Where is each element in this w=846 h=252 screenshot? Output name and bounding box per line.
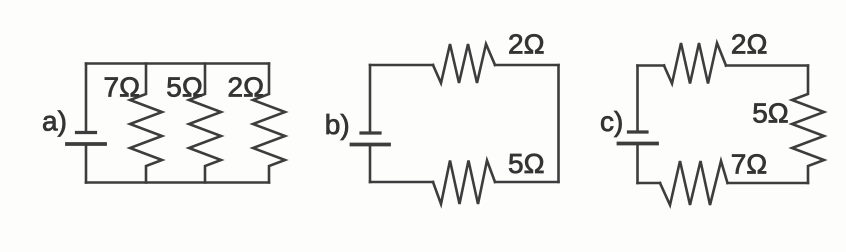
resistor R6 2ohm (horizontal, top) <box>664 43 726 84</box>
svg-text:7Ω: 7Ω <box>104 71 141 102</box>
resistor R4 2ohm (horizontal, top) <box>433 44 495 83</box>
wire: left edge lower of circuit c (battery lead) <box>636 146 639 184</box>
wire: top-left wire of circuit c <box>638 64 665 67</box>
battery V3 short plate (negative) <box>629 130 648 133</box>
wire: left edge upper of circuit c (battery lead) <box>636 66 639 131</box>
svg-text:a): a) <box>42 106 67 137</box>
svg-text:5Ω: 5Ω <box>752 97 789 128</box>
wire: bottom-right wire of circuit c <box>728 182 809 185</box>
wire: left edge lower (battery lead) <box>85 146 88 183</box>
svg-text:5Ω: 5Ω <box>508 148 545 179</box>
resistor R5 5ohm (horizontal, bottom) <box>433 161 495 205</box>
wire: bottom-left wire of circuit b <box>370 181 433 184</box>
svg-text:2Ω: 2Ω <box>508 29 545 60</box>
svg-text:c): c) <box>600 106 623 137</box>
battery V2 short plate (negative) <box>361 131 380 134</box>
wire: left edge upper of circuit b (battery lead) <box>369 65 372 131</box>
wire: top-left wire of circuit b <box>370 64 433 67</box>
svg-text:2Ω: 2Ω <box>731 29 768 60</box>
wire: top wire of circuit a <box>86 62 269 65</box>
wire: bottom-left wire of circuit c <box>638 182 661 185</box>
svg-text:5Ω: 5Ω <box>166 72 203 103</box>
resistor R7 5ohm (vertical, right edge) <box>792 66 824 184</box>
wire: right edge of circuit b <box>557 65 560 182</box>
resistor R8 7ohm (horizontal, bottom) <box>660 161 728 205</box>
wire: left edge lower of circuit b (battery lead) <box>369 147 372 183</box>
svg-text:b): b) <box>325 109 350 140</box>
wire: bottom-right wire of circuit b <box>495 181 559 184</box>
resistor R1 7ohm (vertical) <box>130 64 162 183</box>
wire: top-right wire of circuit b <box>495 64 559 67</box>
wire: left edge upper (battery lead) <box>85 64 88 132</box>
wire: bottom wire of circuit a <box>86 181 269 184</box>
svg-text:7Ω: 7Ω <box>731 149 768 180</box>
battery V1 long plate (positive) <box>67 142 105 146</box>
resistor R3 2ohm (vertical, right edge) <box>253 64 285 183</box>
battery V3 long plate (positive) <box>619 142 658 146</box>
wire: top-right wire of circuit c <box>726 64 808 67</box>
svg-text:2Ω: 2Ω <box>228 72 265 103</box>
resistor R2 5ohm (vertical) <box>189 64 221 183</box>
battery V1 short plate (negative) <box>77 131 96 134</box>
battery V2 long plate (positive) <box>352 143 390 147</box>
